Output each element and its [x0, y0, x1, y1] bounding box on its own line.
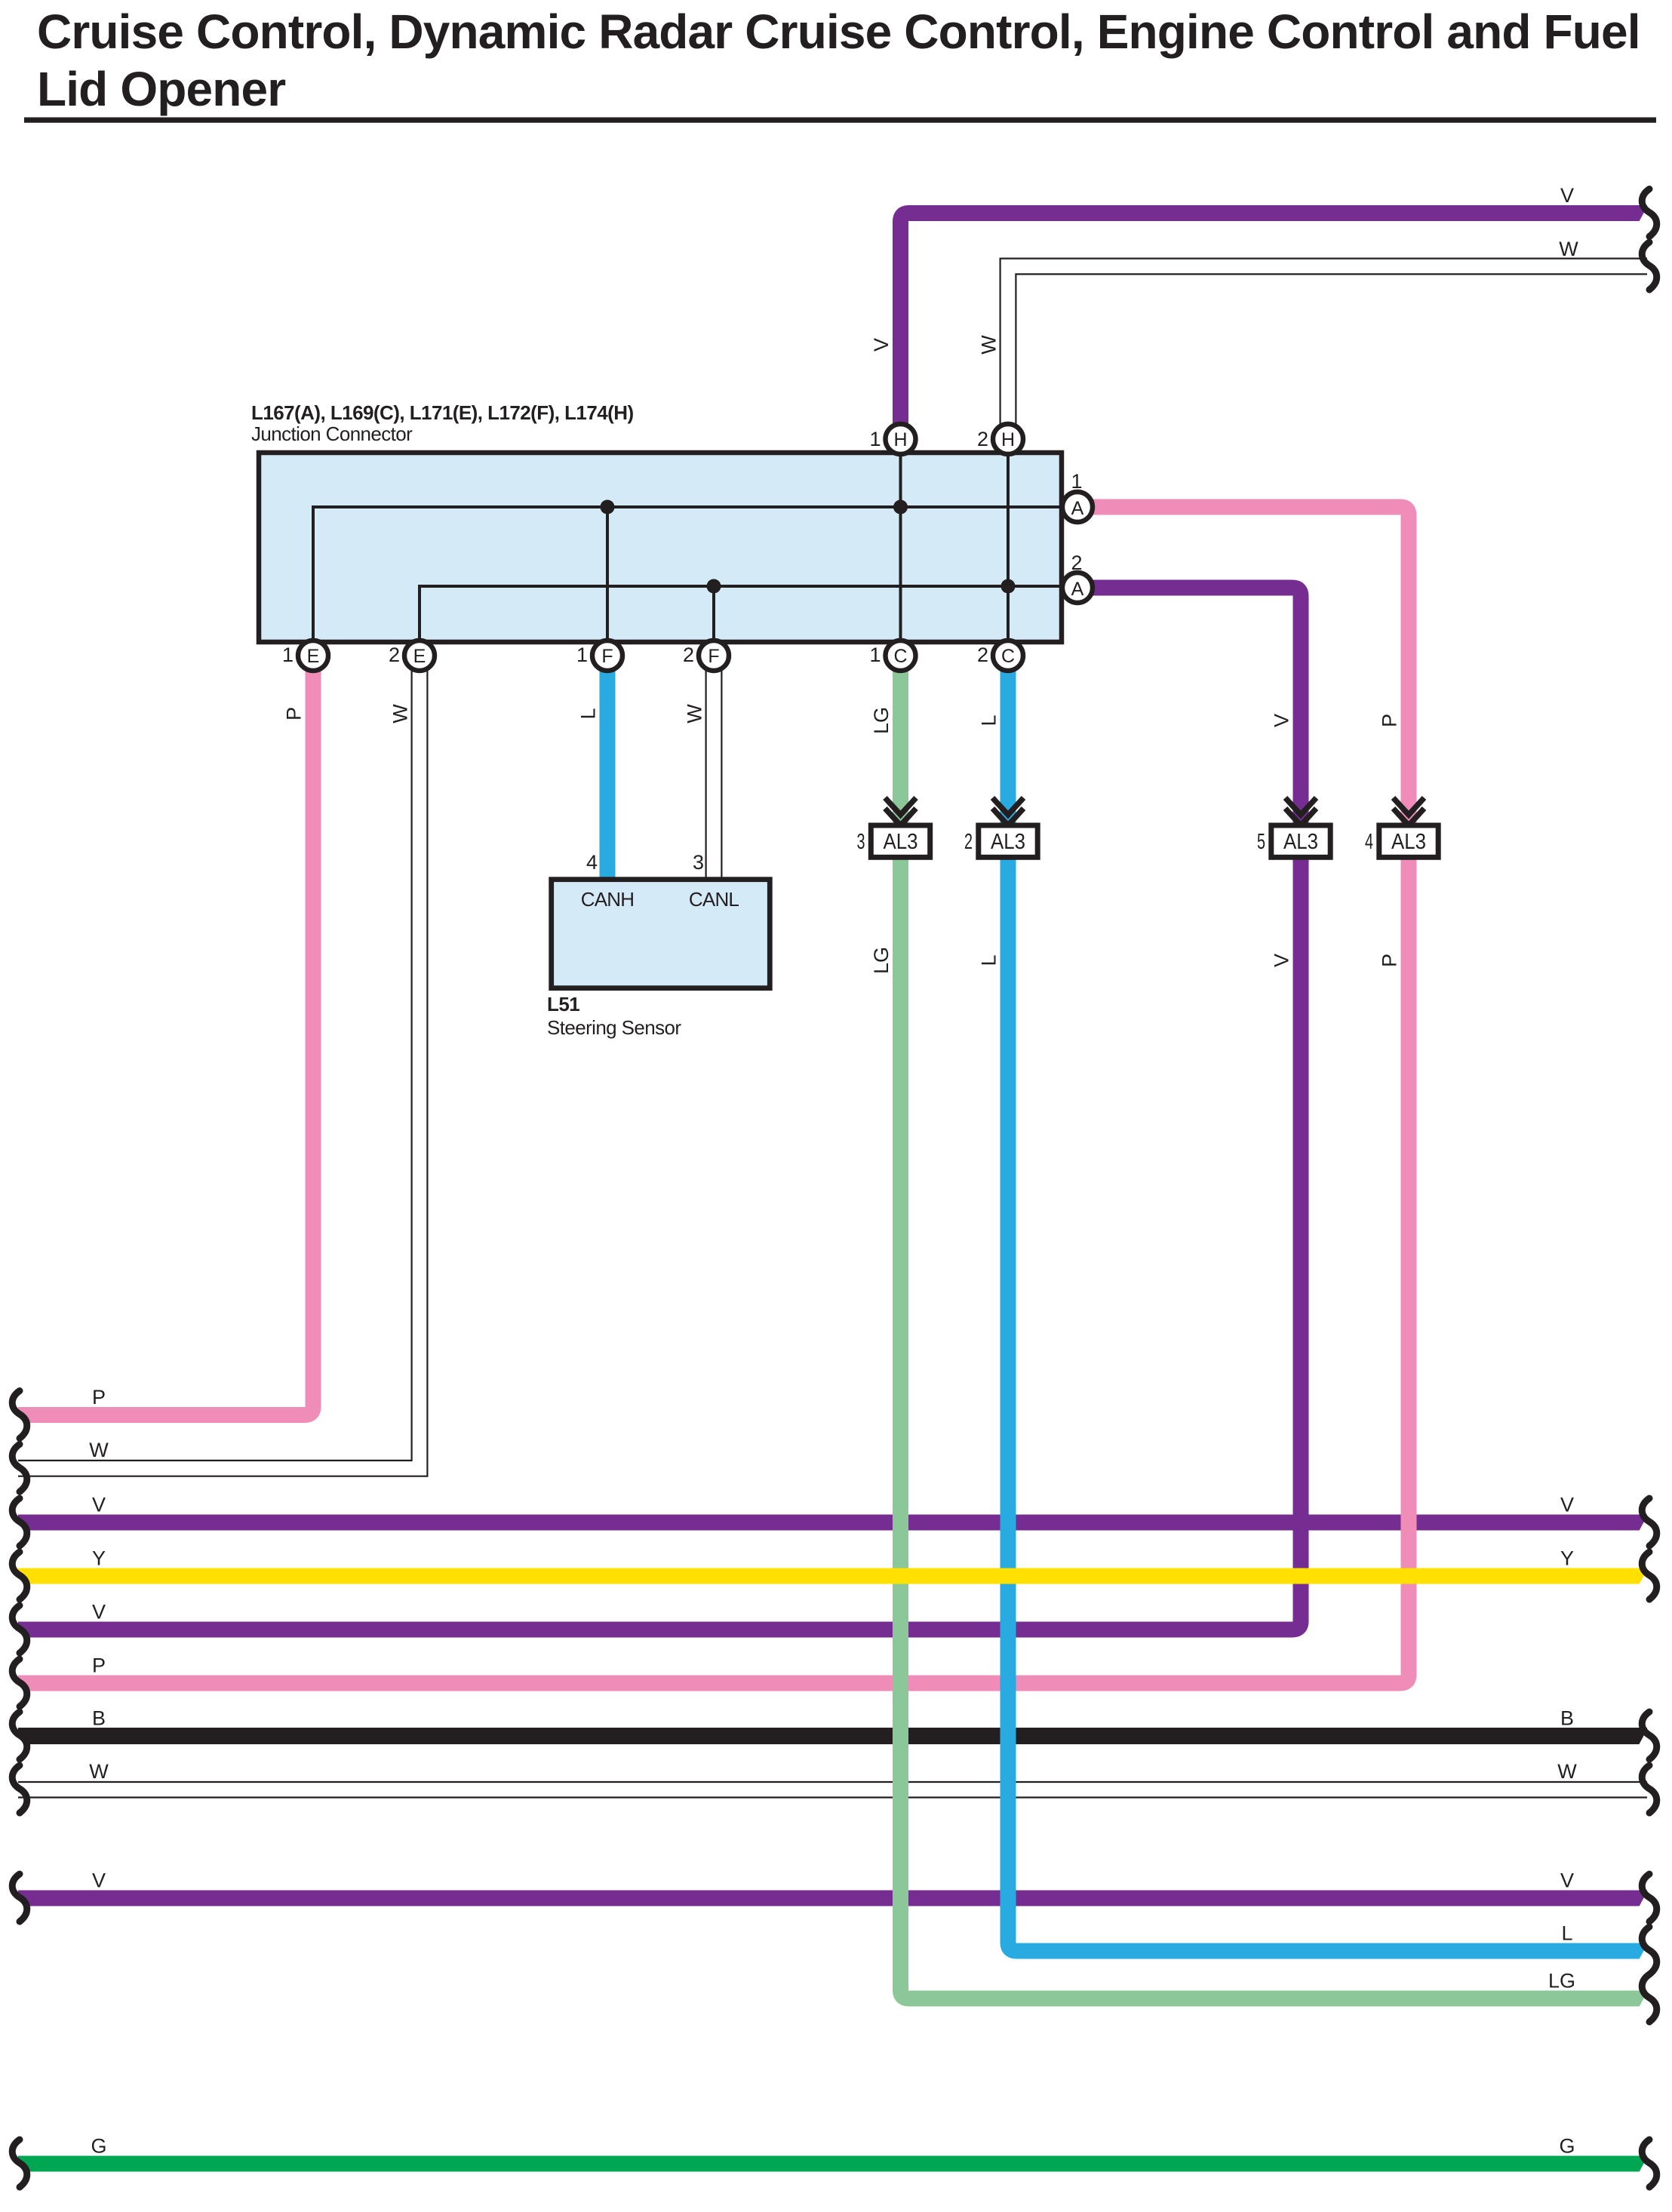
wire V row C — [18, 1515, 1647, 1531]
svg-text:V: V — [92, 1869, 106, 1892]
break row C right — [1642, 1498, 1657, 1546]
svg-text:L: L — [577, 708, 600, 719]
wire Y row D — [18, 1568, 1647, 1584]
break row F left — [12, 1659, 27, 1707]
svg-text:A: A — [1071, 579, 1084, 600]
svg-text:P: P — [1378, 714, 1401, 727]
pin 2H — [977, 424, 1023, 454]
svg-text:LG: LG — [1548, 1970, 1575, 1992]
internal riser 2F — [712, 586, 715, 642]
svg-text:1: 1 — [1071, 470, 1082, 493]
svg-text:W: W — [684, 704, 706, 724]
svg-text:1: 1 — [576, 644, 588, 666]
svg-text:Y: Y — [1560, 1547, 1574, 1570]
svg-text:Cruise Control, Dynamic Radar: Cruise Control, Dynamic Radar Cruise Con… — [37, 5, 1640, 59]
svg-text:A: A — [1071, 498, 1084, 519]
svg-text:W: W — [978, 335, 1000, 355]
svg-text:V: V — [870, 338, 893, 352]
svg-text:5: 5 — [1257, 830, 1265, 854]
break row D left — [12, 1552, 27, 1599]
pin 1E — [282, 641, 328, 671]
svg-text:L51: L51 — [547, 993, 579, 1015]
break wire W top right right — [1642, 242, 1657, 290]
svg-text:2: 2 — [977, 428, 988, 450]
wire W from pin 2F to L51 CANL — [706, 671, 722, 880]
break row K right — [1642, 1974, 1657, 2022]
svg-text:W: W — [389, 704, 412, 724]
break row I right — [1642, 1874, 1657, 1922]
pin 1H — [869, 424, 915, 454]
pin 1C — [869, 641, 915, 671]
svg-text:CANL: CANL — [689, 888, 739, 911]
svg-text:B: B — [92, 1707, 106, 1730]
wire L from pin 2C through AL3 to row J — [1000, 671, 1016, 823]
svg-text:W: W — [89, 1439, 109, 1461]
break row D right — [1642, 1552, 1657, 1599]
junction dot line2 x946 — [707, 579, 721, 594]
internal riser 1F — [606, 507, 609, 642]
svg-text:AL3: AL3 — [1391, 830, 1426, 854]
svg-text:P: P — [92, 1386, 106, 1409]
svg-text:V: V — [1271, 714, 1293, 727]
svg-text:3: 3 — [693, 851, 704, 874]
junction dot line1 x1193 — [893, 500, 908, 515]
svg-text:AL3: AL3 — [884, 830, 918, 854]
svg-text:W: W — [1557, 1760, 1577, 1783]
svg-text:L167(A), L169(C), L171(E), L17: L167(A), L169(C), L171(E), L172(F), L174… — [251, 401, 634, 424]
svg-text:2: 2 — [964, 830, 973, 854]
svg-text:AL3: AL3 — [1283, 830, 1318, 854]
internal vertical 1H-1C — [899, 453, 902, 642]
svg-text:1: 1 — [869, 644, 881, 666]
svg-text:LG: LG — [870, 947, 893, 974]
wire B row G — [18, 1728, 1647, 1744]
wire V from pin 1H to top right — [901, 214, 1648, 425]
wire G row L — [18, 2156, 1647, 2172]
connector AL3 pin 2 (L) — [964, 798, 1037, 858]
svg-text:Y: Y — [92, 1547, 106, 1570]
pin 1F — [576, 641, 622, 671]
svg-text:E: E — [413, 646, 426, 667]
svg-text:L: L — [978, 714, 1000, 726]
break row I left — [12, 1874, 27, 1922]
svg-text:V: V — [1560, 1869, 1574, 1892]
pin 2F — [683, 641, 729, 671]
connector AL3 pin 3 (LG) — [857, 798, 930, 858]
svg-text:G: G — [1559, 2135, 1575, 2158]
svg-text:H: H — [893, 429, 907, 450]
svg-text:1: 1 — [282, 644, 294, 666]
svg-text:V: V — [1560, 1494, 1574, 1516]
break row H left — [12, 1765, 27, 1813]
svg-text:AL3: AL3 — [991, 830, 1025, 854]
break row H right — [1642, 1765, 1657, 1813]
svg-text:C: C — [893, 646, 907, 667]
pin A2 — [1062, 551, 1093, 603]
svg-text:2: 2 — [977, 644, 988, 666]
break row E left — [12, 1605, 27, 1653]
svg-text:V: V — [1271, 954, 1293, 967]
break squiggles right — [1642, 189, 1657, 2188]
wire P from pin A1 through AL3 to row F — [1089, 507, 1409, 823]
svg-text:LG: LG — [870, 707, 893, 734]
svg-text:L: L — [978, 954, 1000, 966]
break wire V top right right — [1642, 189, 1657, 237]
svg-text:H: H — [1001, 429, 1015, 450]
wire W row H — [18, 1782, 1647, 1798]
svg-text:2: 2 — [389, 644, 400, 666]
svg-text:Steering Sensor: Steering Sensor — [547, 1016, 681, 1039]
break row C left — [12, 1498, 27, 1546]
internal vertical 2H-2C — [1007, 453, 1010, 642]
svg-text:Junction Connector: Junction Connector — [251, 422, 413, 445]
break row L left — [12, 2140, 27, 2187]
svg-text:W: W — [89, 1760, 109, 1783]
break row J right — [1642, 1927, 1657, 1974]
break squiggles left — [12, 1391, 27, 2188]
svg-text:V: V — [92, 1601, 106, 1624]
svg-text:CANH: CANH — [581, 888, 634, 911]
connector AL3 pin 4 (P) — [1365, 798, 1438, 858]
svg-text:3: 3 — [857, 830, 865, 854]
wire V row I — [18, 1891, 1647, 1906]
break row B left — [12, 1444, 27, 1492]
svg-text:C: C — [1001, 646, 1015, 667]
svg-text:2: 2 — [683, 644, 694, 666]
svg-text:W: W — [1559, 238, 1578, 260]
junction dot line1 x805 — [601, 500, 615, 515]
svg-text:F: F — [601, 646, 613, 667]
break row G right — [1642, 1712, 1657, 1759]
svg-text:P: P — [1378, 954, 1401, 967]
svg-text:E: E — [307, 646, 320, 667]
svg-text:L: L — [1561, 1922, 1572, 1945]
internal bus line 2 — [420, 586, 1062, 642]
svg-text:4: 4 — [1365, 830, 1373, 854]
pin 2C — [977, 641, 1023, 671]
wire L from pin 1F to L51 CANH — [600, 671, 616, 880]
connector AL3 pin 5 (V) — [1257, 798, 1330, 858]
junction connector box L167/L169/L171/L172/L174 — [259, 453, 1062, 642]
svg-text:G: G — [91, 2135, 106, 2158]
svg-text:F: F — [708, 646, 719, 667]
pin 2E — [389, 641, 435, 671]
break row A left — [12, 1391, 27, 1439]
wire W from pin 2H to top right — [1000, 259, 1647, 424]
svg-text:V: V — [1560, 184, 1574, 207]
svg-text:V: V — [92, 1494, 106, 1516]
break row L right — [1642, 2140, 1657, 2187]
svg-text:2: 2 — [1071, 551, 1082, 574]
svg-text:1: 1 — [869, 428, 881, 450]
wire W from pin 2E — [18, 671, 427, 1476]
svg-text:Lid Opener: Lid Opener — [37, 62, 285, 116]
wire P from pin 1E — [18, 671, 313, 1415]
L51 steering sensor box — [552, 880, 770, 988]
internal bus line 1 — [313, 453, 1062, 642]
break row G left — [12, 1712, 27, 1759]
junction dot line2 x1336 — [1001, 579, 1016, 594]
wire LG from pin 1C through AL3 to row K — [893, 671, 908, 823]
svg-text:P: P — [92, 1654, 106, 1677]
svg-text:P: P — [283, 707, 306, 720]
pin A1 — [1062, 470, 1093, 522]
svg-text:4: 4 — [586, 851, 598, 874]
title rule — [24, 118, 1656, 123]
wire V from pin A2 through AL3 to row E — [1089, 588, 1301, 823]
svg-text:B: B — [1560, 1707, 1574, 1730]
